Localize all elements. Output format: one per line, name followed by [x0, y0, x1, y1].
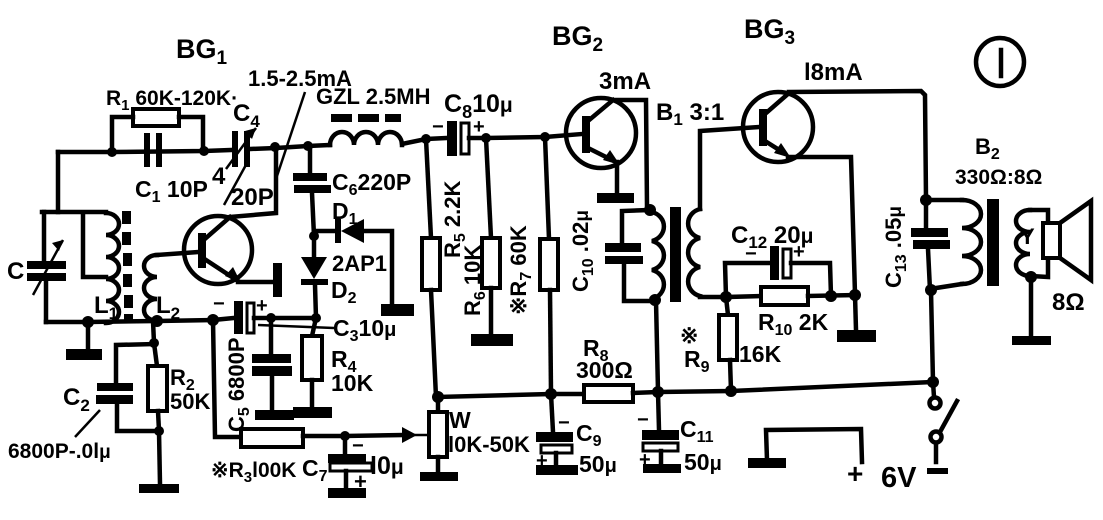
wire bottom rail — [438, 394, 584, 397]
capacitor C10 — [622, 210, 650, 243]
node C13 top junction — [920, 194, 932, 206]
node C11 junction — [652, 386, 664, 398]
svg-text:C5 6800P: C5 6800P — [224, 337, 253, 432]
transformer B2 core — [987, 199, 999, 286]
svg-text:16K: 16K — [739, 341, 782, 367]
transformer B1 secondary — [688, 209, 700, 296]
switch S — [933, 382, 934, 397]
resistor R7 — [545, 137, 549, 239]
node rail-switch junction — [927, 376, 939, 388]
svg-text:※: ※ — [680, 323, 698, 348]
node R10 right junction — [825, 290, 837, 302]
svg-text:20P: 20P — [231, 184, 274, 211]
core dashes GZL — [331, 114, 352, 122]
wire BG1 emitter to plate — [238, 280, 273, 285]
svg-text:l0μ: l0μ — [370, 452, 404, 480]
ground C7 — [328, 488, 366, 498]
node R7 top junction — [540, 132, 550, 142]
node R1-left junction — [107, 147, 117, 157]
node R9 bottom junction — [725, 385, 737, 397]
resistor R6 — [486, 138, 491, 238]
potentiometer W — [436, 397, 441, 412]
svg-text:C6220P: C6220P — [332, 169, 411, 199]
capacitor C (variable tuning) — [27, 261, 66, 269]
svg-text:+: + — [536, 450, 548, 472]
resistor R10 — [726, 296, 761, 297]
node B1 primary bottom junction — [649, 294, 661, 306]
svg-text:−: − — [558, 412, 570, 434]
svg-text:50K: 50K — [170, 389, 210, 414]
capacitor C12 — [725, 263, 770, 297]
svg-text:R6 10K: R6 10K — [460, 245, 489, 316]
svg-text:B1 3:1: B1 3:1 — [656, 99, 724, 129]
wire BG1 collector — [230, 148, 276, 217]
node R2 top junction — [149, 338, 159, 348]
leader C2 value — [75, 410, 100, 437]
svg-text:10K: 10K — [331, 370, 374, 396]
wire down to switch — [931, 291, 933, 382]
capacitor C5 — [269, 318, 274, 354]
circled 1 mark — [976, 38, 1024, 86]
resistor R2 — [154, 343, 157, 366]
leader line 1.5-2.5mA — [277, 92, 305, 176]
wire R3 drop — [213, 320, 241, 437]
svg-text:+: + — [847, 458, 863, 489]
svg-text:+: + — [256, 295, 268, 317]
node C9 junction — [545, 388, 557, 400]
node R1-right junction — [199, 146, 209, 156]
wire tank left bottom — [44, 281, 49, 322]
svg-text:−: − — [213, 293, 225, 315]
svg-text:2AP1: 2AP1 — [332, 251, 387, 276]
svg-text:−: − — [432, 116, 444, 138]
inductor L2 — [144, 255, 157, 321]
node W top junction — [432, 391, 444, 403]
wire B1 primary bottom to rail — [656, 301, 658, 391]
svg-text:C13 .05μ: C13 .05μ — [881, 206, 910, 288]
svg-text:※R7 60K: ※R7 60K — [506, 225, 535, 315]
svg-text:330Ω:8Ω: 330Ω:8Ω — [955, 166, 1042, 189]
wire BG3 collector to top right — [789, 91, 926, 199]
svg-text:C: C — [7, 258, 24, 285]
svg-text:4: 4 — [212, 163, 226, 190]
ground battery — [748, 458, 786, 468]
ground C9 — [536, 465, 578, 475]
speaker Y — [1043, 223, 1060, 258]
ground R4 — [293, 407, 332, 418]
wire L1 tap — [83, 213, 106, 277]
svg-text:50μ: 50μ — [579, 451, 617, 477]
capacitor C6 — [308, 147, 313, 173]
svg-text:50μ: 50μ — [684, 449, 722, 475]
svg-text:+: + — [354, 469, 367, 494]
capacitor C8 — [447, 121, 457, 156]
node C7 junction — [340, 431, 350, 441]
resistor R3 — [241, 429, 303, 447]
capacitor C13 — [924, 199, 929, 228]
node A junction after C4 — [270, 142, 280, 152]
svg-text:Y: Y — [1020, 224, 1035, 249]
capacitor C11 — [658, 392, 659, 430]
wire bottom rail left — [46, 320, 213, 322]
svg-text:−: − — [352, 435, 364, 457]
wire BG3 emitter — [788, 157, 855, 294]
node D1 junction — [309, 231, 319, 241]
battery 6V bracket — [766, 429, 862, 462]
wire to C2 — [116, 344, 154, 383]
ground R2 — [159, 431, 160, 484]
node R6 top junction — [481, 133, 491, 143]
wire GZL to C8 — [402, 138, 447, 144]
svg-text:C1 10P: C1 10P — [135, 176, 208, 206]
svg-text:C310μ: C310μ — [333, 315, 396, 345]
wire BG2 emitter — [615, 162, 620, 193]
diode D1 — [314, 229, 336, 234]
capacitor C4 (variable) — [232, 131, 238, 167]
wire C8 to BG2 base — [486, 134, 582, 138]
wire C2 bottom — [117, 404, 159, 431]
resistor R8 — [584, 385, 633, 402]
ground L1 — [86, 322, 91, 349]
transistor BG3 — [743, 92, 813, 162]
wire main top rail left — [58, 150, 232, 152]
wire to W arrow — [345, 435, 402, 436]
wire R2 drop — [153, 321, 154, 343]
wire BG2 collector — [613, 100, 647, 207]
resistor R1 — [133, 109, 179, 126]
svg-text:3mA: 3mA — [599, 68, 651, 95]
capacitor C2 — [97, 383, 133, 391]
svg-text:GZL 2.5MH: GZL 2.5MH — [316, 84, 431, 109]
ground speaker — [1029, 277, 1034, 336]
node R9 top junction — [720, 291, 732, 303]
ground D1 — [381, 304, 414, 316]
diode D2 — [312, 236, 317, 257]
inductor GZL 2.5MH — [330, 132, 402, 145]
svg-text:−: − — [637, 409, 649, 431]
node R5 top junction — [421, 134, 431, 144]
svg-text:W: W — [449, 407, 471, 433]
tank left side wire — [42, 212, 47, 261]
node B2 primary bottom junction — [925, 284, 937, 296]
svg-text:C10 .02μ: C10 .02μ — [568, 210, 597, 292]
ground C5 — [255, 410, 294, 420]
transformer B1 core — [670, 207, 681, 302]
capacitor C1 — [144, 133, 150, 167]
ground BG2 emitter — [597, 193, 634, 203]
ground C11 — [643, 464, 681, 473]
capacitor C9 — [551, 394, 553, 432]
capacitor C7 — [343, 436, 348, 455]
ground W — [420, 472, 458, 481]
node speaker bottom junction — [1025, 271, 1037, 283]
svg-text:300Ω: 300Ω — [576, 357, 633, 383]
wire B1 secondary top to BG3 base — [700, 127, 759, 209]
node D2 junction on rail — [311, 313, 321, 323]
wire L2 to BG1 base — [157, 252, 198, 255]
wire top-left vertical to tank — [56, 152, 61, 212]
transistor BG2 — [566, 98, 636, 168]
transistor BG1 — [184, 216, 252, 284]
node L1 bottom junction — [82, 316, 94, 328]
svg-text:C12 20μ: C12 20μ — [731, 222, 814, 252]
wire B1 secondary bottom — [700, 295, 726, 300]
resistor R9 — [726, 297, 728, 315]
wire R1 left loop — [112, 117, 133, 152]
node BG3 emitter junction — [849, 289, 861, 301]
resistor R5 — [426, 139, 431, 238]
ground R6 — [471, 334, 513, 346]
node L2 bottom junction — [151, 315, 163, 327]
svg-text:※R3l00K: ※R3l00K — [211, 459, 296, 486]
node R2 bottom junction — [154, 426, 164, 436]
transformer B2 primary — [926, 198, 962, 203]
capacitor C3 — [213, 318, 234, 320]
svg-text:+: + — [639, 449, 651, 471]
node C5 junction — [266, 313, 276, 323]
svg-text:6V: 6V — [881, 462, 917, 494]
core dashes of L1/L2 — [122, 211, 131, 224]
emitter plate bar — [273, 263, 282, 297]
svg-text:8Ω: 8Ω — [1052, 289, 1085, 316]
leader C3 label — [258, 325, 334, 328]
svg-text:l8mA: l8mA — [804, 59, 863, 86]
svg-text:6800P-.0lμ: 6800P-.0lμ — [8, 440, 111, 463]
wire R1 right loop — [179, 117, 203, 151]
svg-text:R10 2K: R10 2K — [758, 309, 829, 339]
node bottom rail big junction — [207, 314, 219, 326]
resistor R4 — [312, 318, 316, 336]
ground BG3 emitter — [855, 295, 856, 330]
tank top wire — [42, 210, 106, 215]
transformer B1 primary — [652, 212, 664, 299]
node B1 primary top junction — [644, 204, 656, 216]
wire after C4 — [250, 145, 330, 149]
node C6 top junction — [303, 141, 313, 151]
inductor L1 — [106, 213, 119, 323]
transformer B2 secondary — [1016, 210, 1030, 276]
svg-text:l0K-50K: l0K-50K — [448, 432, 530, 457]
